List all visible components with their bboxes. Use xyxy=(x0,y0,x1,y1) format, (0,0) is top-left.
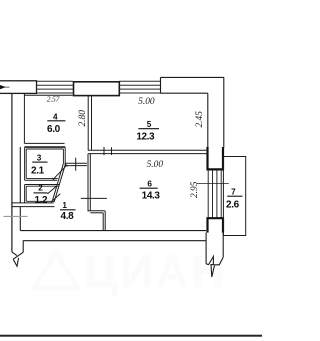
watermark house triangle xyxy=(34,252,78,288)
wall between room 1 and room 6 xyxy=(87,154,89,212)
right wall inner line upper xyxy=(207,93,209,147)
wall between rooms 5 and 6 xyxy=(88,149,208,151)
svg-text:1: 1 xyxy=(62,201,67,210)
room 7 balcony box xyxy=(223,157,245,236)
svg-text:5.00: 5.00 xyxy=(147,160,164,170)
svg-text:2.57: 2.57 xyxy=(47,95,61,104)
right wall outer line upper xyxy=(223,77,225,147)
left break zigzag xyxy=(12,241,23,267)
door jamb tick room 4 entry xyxy=(75,158,77,171)
svg-text:1.2: 1.2 xyxy=(34,195,48,206)
svg-text:2.1: 2.1 xyxy=(31,165,45,176)
right wall bold segment upper xyxy=(207,147,225,170)
right wall bold segment lower xyxy=(207,217,225,232)
wall stub between room 1 and room 4 xyxy=(65,162,87,164)
svg-text:6.0: 6.0 xyxy=(47,124,61,135)
room 2 box xyxy=(13,185,60,203)
wall top-left solid segment xyxy=(0,81,37,94)
door opening tick room 6 entry xyxy=(81,197,107,199)
svg-text:12.3: 12.3 xyxy=(136,132,155,143)
wall top-right solid segment xyxy=(161,77,225,93)
svg-text:7: 7 xyxy=(231,188,236,197)
room 3 box xyxy=(25,147,66,180)
step wall horizontal at room 6 bottom-left xyxy=(88,210,105,212)
door leaf room 2 upper xyxy=(48,187,56,194)
door leaf room 3 xyxy=(52,164,67,180)
svg-text:14.3: 14.3 xyxy=(142,191,161,202)
door leaf room 2 lower xyxy=(51,194,60,203)
room 4 box top edge xyxy=(24,94,72,96)
break zigzag right xyxy=(206,256,223,277)
window W1 box (room 4 window) xyxy=(74,82,120,96)
svg-text:2.45: 2.45 xyxy=(195,111,205,128)
north arrow xyxy=(0,85,6,89)
svg-text:3: 3 xyxy=(37,154,42,163)
svg-text:6: 6 xyxy=(147,180,152,189)
step wall vertical at room 6 bottom-left xyxy=(102,213,104,231)
room 4 box left edge xyxy=(23,94,25,144)
svg-text:2.95: 2.95 xyxy=(190,181,200,198)
bottom wall xyxy=(20,230,206,232)
partition between rooms 4 and 5 xyxy=(87,95,89,150)
left wall inner line (lower part) xyxy=(19,207,21,231)
left wall inner line (upper part beside rooms 3/2) xyxy=(19,147,21,203)
gray survey tick on left wall xyxy=(3,215,27,217)
svg-text:4.8: 4.8 xyxy=(61,211,75,222)
svg-text:5: 5 xyxy=(147,120,152,129)
wall band below room 2 xyxy=(13,206,55,208)
svg-text:5.00: 5.00 xyxy=(138,97,155,107)
wall between room 4 and room 3 xyxy=(24,142,64,144)
left wall outer line xyxy=(11,94,13,252)
window lines left of window W1 xyxy=(37,81,73,93)
window lines right of window W1 xyxy=(119,81,160,93)
page bottom rule xyxy=(0,335,262,337)
svg-text:2: 2 xyxy=(38,184,43,193)
dimension leader line for 2.95 xyxy=(197,183,229,185)
right wall window (balcony) vertical lines xyxy=(208,170,221,217)
svg-text:4: 4 xyxy=(53,112,58,121)
tick on wall 5/6 right xyxy=(111,147,113,155)
diagonal wall right of rooms 3 and 2 xyxy=(54,164,65,202)
svg-text:2.6: 2.6 xyxy=(226,199,240,210)
right wall stub below bottom wall with break xyxy=(206,233,223,277)
svg-text:2.80: 2.80 xyxy=(78,110,88,127)
tick on wall 5/6 left xyxy=(103,147,105,155)
